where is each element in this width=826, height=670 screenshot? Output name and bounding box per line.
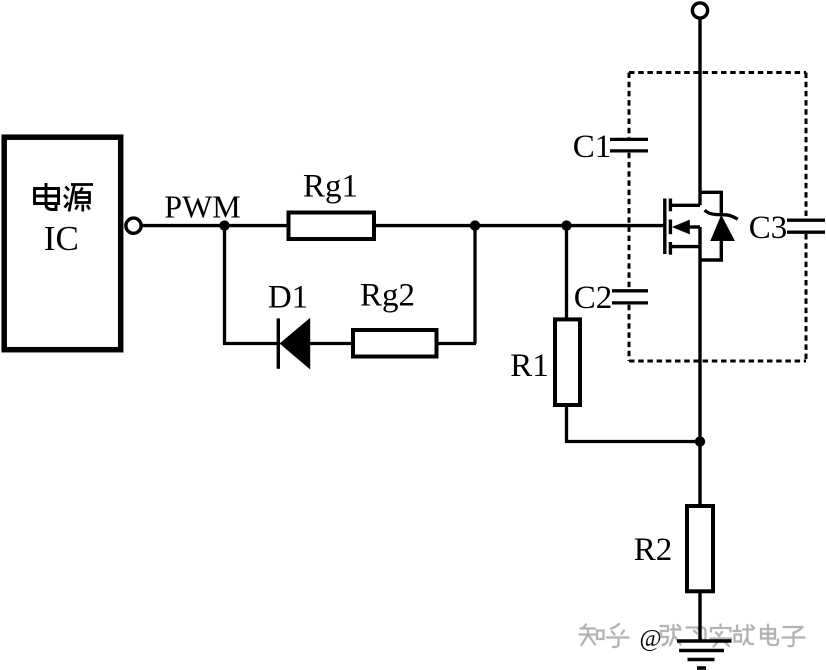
resistor R2 body [687,506,713,591]
wire PWM pin to gate (main horizontal) [142,224,665,227]
label 源 of 源 [64,185,93,212]
wire Rg2 right lead to right branch [437,342,477,345]
wire node PWM down to D1 branch [223,226,226,344]
transistor Q1 source lead [670,245,700,248]
svg-text:C1: C1 [573,129,612,165]
wire R1 bottom down [565,405,568,442]
watermark char 电 [761,625,778,646]
watermark char 子 [783,627,805,646]
diode D1 triangle (points left) [280,319,309,369]
power IC box U1 [4,137,121,350]
wire node C down to R1 [565,226,568,319]
wire source vertical down to node D [698,227,701,442]
resistor Rg1 body [289,213,375,240]
svg-text:@: @ [640,626,662,652]
dashed box bottom edge [629,360,806,363]
ground bar 1 [677,639,732,643]
capacitor C3 bottom plate [787,231,825,234]
watermark char 战 [734,625,755,645]
wire R1 bottom to source node D [565,440,700,443]
transistor Q1 drain lead [670,204,700,207]
body diode cathode curved bar [705,210,738,219]
svg-text:PWM: PWM [164,189,240,225]
capacitor C2 bottom plate [612,301,648,304]
svg-text:R1: R1 [510,348,549,384]
svg-text:Rg1: Rg1 [303,169,358,205]
label 电 of 电源 [35,183,59,210]
transistor Q1 gate bar [663,199,666,255]
watermark 知乎 @张飞实战电子 [580,624,805,652]
dashed box top edge [629,71,806,74]
wire R2 bottom to ground [698,591,701,641]
svg-text:IC: IC [44,219,79,258]
terminal circle PWM output pin [126,218,141,233]
wire drain to body diode jog [700,192,721,213]
wire drain vertical from top terminal [698,19,701,206]
capacitor C2 top plate [612,289,648,292]
wire node D down to R2 [698,442,701,507]
svg-text:R2: R2 [634,532,673,568]
svg-text:C2: C2 [574,280,613,316]
wire right branch vertical up to node B [473,226,476,344]
watermark char 实 [711,625,732,647]
body diode triangle (points up) [711,217,733,241]
transistor Q1 body lead [688,225,700,228]
resistor Rg2 body [353,330,437,357]
svg-text:Rg2: Rg2 [360,278,415,314]
capacitor C3 top plate [787,219,825,222]
ground bar 3 [688,658,715,662]
node D junction dot (source / R2) [695,436,705,446]
watermark char 张 [661,625,681,645]
ground bar 2 [679,649,724,653]
capacitor C1 top plate [610,138,648,141]
wire branch left end to D1 cathode [223,342,278,345]
transistor Q1 channel top segment [669,199,672,212]
capacitor C1 bottom plate [610,149,648,152]
wire D1 anode to Rg2 [308,342,353,345]
svg-text:D1: D1 [268,280,308,316]
dashed box left edge (gaps at C1, C2) [628,73,631,138]
watermark char 知 [580,625,604,646]
transistor Q1 body arrow (points to channel) [672,220,690,235]
node C junction dot (R1 branch / gate) [561,220,571,230]
transistor Q1 channel middle segment [669,220,672,235]
watermark char 乎 [607,624,629,647]
resistor R1 body [555,319,580,405]
svg-text:C3: C3 [749,210,788,246]
ground bar 4 [697,666,706,670]
diode D1 cathode bar [277,318,280,368]
node B junction dot (Rg1/Rg2 output) [470,220,480,230]
terminal circle drain (top) [692,3,707,18]
wire body diode anode to source jog [700,239,721,260]
dashed box right edge (gap at C3) [805,73,808,219]
node PWM junction dot [219,220,229,230]
transistor Q1 channel bottom segment [669,242,672,255]
watermark char 飞 [687,628,706,642]
